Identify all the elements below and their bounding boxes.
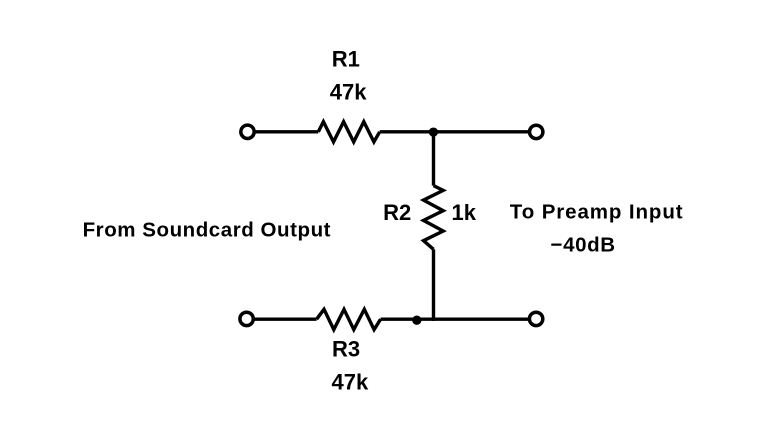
svg-text:To Preamp Input: To Preamp Input bbox=[510, 201, 684, 224]
svg-text:47k: 47k bbox=[332, 370, 369, 395]
wire top-right (R1 through node A to right terminal) bbox=[380, 130, 530, 133]
svg-text:From Soundcard Output: From Soundcard Output bbox=[83, 218, 331, 241]
resistor R3 bbox=[317, 309, 381, 329]
svg-text:R1: R1 bbox=[332, 47, 360, 72]
svg-text:R2: R2 bbox=[383, 200, 411, 225]
wire vertical upper (node A to R2) bbox=[432, 132, 435, 186]
wire bottom-right (R3 through node B to right terminal) bbox=[381, 318, 530, 321]
terminal top-left bbox=[241, 125, 254, 138]
terminal bottom-left bbox=[240, 312, 253, 325]
node A junction dot bbox=[429, 127, 438, 136]
node B junction dot bbox=[412, 316, 421, 325]
resistor R1 bbox=[318, 122, 379, 142]
terminal top-right bbox=[530, 125, 543, 138]
svg-text:R3: R3 bbox=[332, 336, 360, 361]
resistor R2 bbox=[424, 186, 444, 250]
wire bottom-left (left terminal to R3) bbox=[253, 318, 317, 321]
svg-text:−40dB: −40dB bbox=[551, 234, 616, 257]
wire vertical lower (R2 to bottom wire) bbox=[432, 249, 435, 321]
terminal bottom-right bbox=[529, 312, 542, 325]
svg-text:1k: 1k bbox=[452, 200, 477, 225]
svg-text:47k: 47k bbox=[330, 80, 367, 105]
wire top-left (left terminal to R1) bbox=[253, 130, 318, 133]
